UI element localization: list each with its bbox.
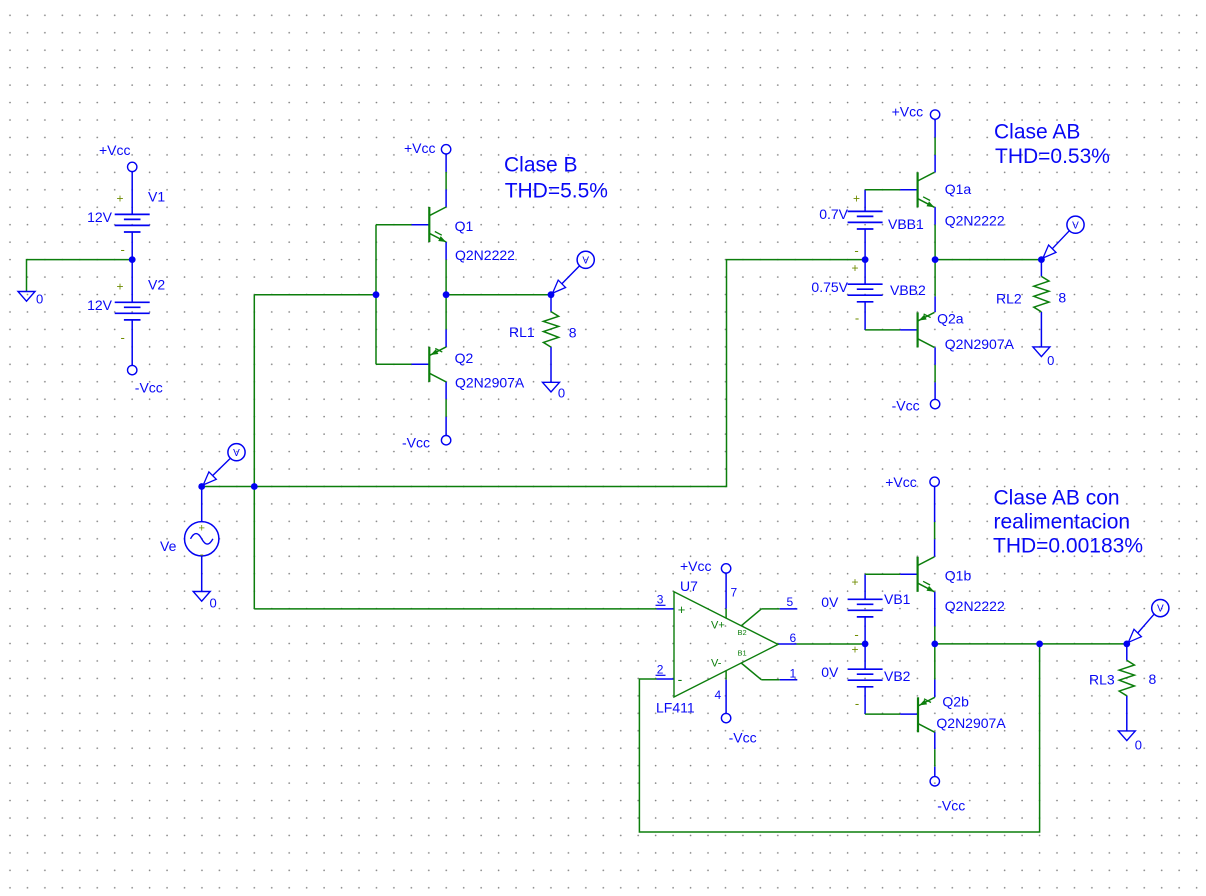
transistor Q1a <box>918 172 935 207</box>
svg-text:3: 3 <box>657 593 664 607</box>
value 0.75V (VBB2) <box>811 279 848 295</box>
wire RL2 bottom <box>1040 312 1042 347</box>
ground 0 (RL1) <box>543 382 560 392</box>
value Q2N2222 (Q1a) <box>945 213 1005 229</box>
battery V1 <box>115 214 150 232</box>
svg-text:THD=0.53%: THD=0.53% <box>995 145 1110 168</box>
wire input branch vertical <box>253 295 255 609</box>
plus mark VBB1 <box>853 192 860 206</box>
svg-text:V: V <box>233 448 240 459</box>
label -Vcc (supply) <box>135 380 163 396</box>
port +Vcc (U7) <box>721 564 730 573</box>
transistor Q2 <box>429 347 446 382</box>
svg-text:+: + <box>678 602 686 617</box>
port +Vcc (supply) <box>128 162 137 171</box>
svg-text:LF411: LF411 <box>656 700 695 716</box>
label +Vcc (U7) <box>680 558 712 574</box>
svg-text:-: - <box>854 243 858 258</box>
ground 0 (RL3) <box>1118 731 1135 741</box>
wire Clase AB node to RL2 <box>935 259 1041 261</box>
battery VB2 <box>848 669 883 687</box>
source Ve <box>185 522 219 561</box>
wire main input net Ve to Clase AB <box>202 260 865 487</box>
wire input to Clase B bases <box>254 294 376 296</box>
svg-text:12V: 12V <box>87 209 113 225</box>
svg-text:-: - <box>855 311 859 326</box>
wire Clase AB +Vcc drop <box>934 119 936 172</box>
probe V (realim. output) <box>1128 600 1169 643</box>
port -Vcc (supply) <box>128 365 137 374</box>
pin 2 (U7) <box>656 663 666 677</box>
ground 0 (power supply) <box>18 292 35 302</box>
label RL2 <box>996 291 1022 307</box>
svg-text:THD=5.5%: THD=5.5% <box>505 179 608 202</box>
label 0 (power ground) <box>36 292 43 307</box>
wire RL1 top <box>550 295 552 312</box>
port -Vcc (realim.) <box>930 777 939 786</box>
svg-text:4: 4 <box>715 688 722 702</box>
svg-text:realimentacion: realimentacion <box>994 511 1131 534</box>
svg-text:+: + <box>198 523 204 535</box>
svg-text:V: V <box>1157 604 1164 615</box>
label Q2 <box>455 350 474 366</box>
battery VBB1 <box>848 211 883 229</box>
plus mark VBB2 <box>851 261 858 275</box>
label V1 <box>148 189 165 205</box>
svg-text:Q2N2222: Q2N2222 <box>455 247 515 263</box>
svg-text:-Vcc: -Vcc <box>135 380 163 396</box>
label Q2a <box>937 310 964 326</box>
wire Ve top <box>201 487 203 522</box>
label V+ (U7) <box>711 620 725 632</box>
svg-text:RL1: RL1 <box>509 324 535 340</box>
junction node RL3 <box>1123 641 1130 648</box>
svg-text:+: + <box>851 643 858 657</box>
wire Q2 base stub <box>376 363 429 365</box>
svg-text:Ve: Ve <box>160 538 177 554</box>
label B2 (U7) <box>738 628 747 637</box>
svg-text:THD=0.00183%: THD=0.00183% <box>993 535 1143 558</box>
pin 5 (U7) <box>741 595 797 626</box>
svg-text:0: 0 <box>558 386 565 401</box>
svg-text:Q1a: Q1a <box>945 181 972 197</box>
wire V2 bottom <box>131 320 133 366</box>
label U7 <box>680 578 698 594</box>
title Clase AB con realimentacion <box>993 486 1143 557</box>
svg-text:+: + <box>116 280 123 294</box>
pin 1 (U7) <box>741 663 797 681</box>
junction junction Ve node <box>198 483 205 490</box>
transistor Q1 <box>429 207 446 242</box>
wire output node to RL3 <box>935 643 1127 645</box>
svg-text:5: 5 <box>787 595 794 609</box>
svg-text:0V: 0V <box>821 594 839 610</box>
svg-text:12V: 12V <box>87 297 113 313</box>
battery V2 <box>115 302 150 320</box>
minus mark V2 <box>121 330 125 345</box>
minus mark VB1 <box>854 627 858 642</box>
svg-text:0: 0 <box>1047 353 1054 368</box>
port +Vcc (realim.) <box>930 477 939 486</box>
ground 0 (RL2) <box>1033 347 1050 357</box>
wire Ve bottom <box>201 556 203 592</box>
svg-text:-: - <box>121 330 125 345</box>
battery VB1 <box>848 599 883 617</box>
wire Clase B base bus <box>375 225 377 365</box>
plus mark V2 <box>116 280 123 294</box>
svg-text:Q2b: Q2b <box>942 693 969 709</box>
resistor RL1 <box>543 312 558 348</box>
pin 6 (U7) <box>790 631 797 645</box>
label VB1 <box>884 591 911 607</box>
op-amp U7 <box>674 592 778 697</box>
svg-text:0: 0 <box>36 292 43 307</box>
svg-text:+Vcc: +Vcc <box>885 474 917 490</box>
svg-text:0: 0 <box>1135 738 1142 753</box>
label -Vcc (Clase AB) <box>892 398 920 414</box>
label 0 (RL3 ground) <box>1135 738 1142 753</box>
pin 4 (U7) <box>715 670 727 713</box>
title Clase B <box>504 154 608 203</box>
svg-text:Q1b: Q1b <box>945 568 972 584</box>
value 0V (VB2) <box>821 664 839 680</box>
junction node RL1 <box>548 291 555 298</box>
wire Clase B +Vcc drop <box>445 154 447 207</box>
wire Q1 base stub <box>376 224 429 226</box>
wire Clase B emitter string <box>445 242 447 347</box>
value LF411 (U7) <box>656 700 695 716</box>
label -Vcc (Clase B) <box>402 435 430 451</box>
svg-text:+: + <box>116 192 123 206</box>
probe V (Clase AB output) <box>1043 216 1084 258</box>
label Q1 <box>455 218 474 234</box>
label B1 (U7) <box>738 649 747 658</box>
value 12V (V2) <box>87 297 113 313</box>
pin 3 (U7) <box>656 593 666 607</box>
port +Vcc (Clase B) <box>441 145 450 154</box>
resistor RL3 <box>1119 660 1134 696</box>
svg-text:+Vcc: +Vcc <box>892 104 924 120</box>
wire junction to VBB2 <box>864 260 866 285</box>
wire power supply midpoint to ground <box>27 260 133 292</box>
port -Vcc (U7) <box>721 713 730 722</box>
value 12V (V1) <box>87 209 113 225</box>
minus mark VBB2 <box>855 311 859 326</box>
wire VBB2 to Q2a base <box>865 302 918 330</box>
junction node Clase B output <box>443 291 450 298</box>
svg-text:8: 8 <box>569 325 577 341</box>
label Ve <box>160 538 177 554</box>
wire op-amp pin3 feed <box>254 608 674 610</box>
value Q2N2907A (Q2a) <box>945 336 1015 352</box>
svg-text:-: - <box>678 671 683 687</box>
wire RL3 bottom <box>1126 696 1128 731</box>
svg-text:8: 8 <box>1149 671 1157 687</box>
svg-text:8: 8 <box>1058 290 1066 306</box>
wire V1 top <box>131 172 133 215</box>
label V- (U7) <box>711 658 722 670</box>
svg-text:Q2N2907A: Q2N2907A <box>945 336 1015 352</box>
svg-text:-: - <box>855 696 859 711</box>
plus mark VB2 <box>851 643 858 657</box>
svg-text:1: 1 <box>790 667 797 681</box>
wire V1 bottom <box>131 232 133 260</box>
label V2 <box>148 277 165 293</box>
label +Vcc (supply) <box>99 142 131 158</box>
svg-text:+: + <box>851 261 858 275</box>
svg-text:B2: B2 <box>738 628 747 637</box>
wire Q2b -Vcc drop <box>934 732 936 777</box>
svg-text:V2: V2 <box>148 277 165 293</box>
minus mark VBB1 <box>854 243 858 258</box>
svg-text:0V: 0V <box>821 664 839 680</box>
svg-text:+Vcc: +Vcc <box>99 142 131 158</box>
junction junction input branch <box>251 483 258 490</box>
svg-text:Q2N2222: Q2N2222 <box>945 598 1005 614</box>
value 0V (VB1) <box>821 594 839 610</box>
title Clase AB <box>994 120 1110 168</box>
wire Q1b +Vcc drop <box>934 487 936 557</box>
label 0 (RL2 ground) <box>1047 353 1054 368</box>
svg-text:Clase AB: Clase AB <box>994 120 1080 143</box>
value 8 (RL2) <box>1058 290 1066 306</box>
svg-text:0: 0 <box>210 596 217 611</box>
label RL3 <box>1089 672 1115 688</box>
svg-text:Q2: Q2 <box>455 350 474 366</box>
label -Vcc (realim.) <box>937 798 965 814</box>
label Q2b <box>942 693 969 709</box>
transistor Q1b <box>918 557 935 592</box>
svg-text:-Vcc: -Vcc <box>892 398 920 414</box>
svg-text:Q2N2907A: Q2N2907A <box>936 715 1006 731</box>
junction node RL2 <box>1038 256 1045 263</box>
svg-text:+: + <box>851 575 858 589</box>
svg-text:Clase B: Clase B <box>504 154 578 177</box>
junction node realim. output <box>931 641 938 648</box>
svg-text:U7: U7 <box>680 578 698 594</box>
svg-text:-: - <box>854 627 858 642</box>
wire VB2 to Q2b base <box>865 687 918 714</box>
junction junction feedback tap <box>1036 641 1043 648</box>
svg-text:-: - <box>200 547 204 561</box>
plus mark V1 <box>116 192 123 206</box>
minus mark VB2 <box>855 696 859 711</box>
junction junction Clase B bases <box>373 291 380 298</box>
port +Vcc (Clase AB) <box>930 110 939 119</box>
junction junction V1-V2 <box>129 256 136 263</box>
svg-text:-: - <box>121 242 125 257</box>
value Q2N2222 (Q1) <box>455 247 515 263</box>
svg-text:-Vcc: -Vcc <box>402 435 430 451</box>
wire VB1 to Q1b base <box>865 574 918 599</box>
wire VBB1 to junction <box>864 229 866 260</box>
wire VB1 to junction <box>864 617 866 644</box>
label +Vcc (Clase AB) <box>892 104 924 120</box>
wire VBB1 to Q1a base <box>865 190 918 212</box>
svg-text:V1: V1 <box>148 189 165 205</box>
svg-text:VB1: VB1 <box>884 591 911 607</box>
label VB2 <box>884 668 911 684</box>
wire RL1 bottom <box>550 347 552 382</box>
plus mark VB1 <box>851 575 858 589</box>
minus mark V1 <box>121 242 125 257</box>
label +Vcc (Clase B) <box>404 140 436 156</box>
label 0 (RL1 ground) <box>558 386 565 401</box>
value Q2N2907A (Q2) <box>455 374 525 390</box>
wire Q1b Q2b emitter string <box>934 592 936 698</box>
svg-text:RL3: RL3 <box>1089 672 1115 688</box>
label +Vcc (realim.) <box>885 474 917 490</box>
wire RL2 top <box>1040 260 1042 277</box>
svg-text:7: 7 <box>731 586 738 600</box>
svg-text:VB2: VB2 <box>884 668 911 684</box>
wire Clase B output node to RL1 <box>446 294 551 296</box>
wire op-amp pin6 output <box>778 643 865 645</box>
label -Vcc (U7) <box>729 729 757 745</box>
wire RL3 top <box>1126 644 1128 660</box>
value 8 (RL3) <box>1149 671 1157 687</box>
port -Vcc (Clase B) <box>441 436 450 445</box>
svg-text:0.7V: 0.7V <box>819 206 848 222</box>
value Q2N2222 (Q1b) <box>945 598 1005 614</box>
probe V (input) <box>203 444 245 485</box>
junction junction VBB <box>862 256 869 263</box>
wire Clase B -Vcc drop <box>445 382 447 436</box>
svg-text:-Vcc: -Vcc <box>729 729 757 745</box>
wire Clase AB -Vcc drop <box>934 347 936 399</box>
value 8 (RL1) <box>569 325 577 341</box>
svg-text:RL2: RL2 <box>996 291 1022 307</box>
svg-text:VBB2: VBB2 <box>890 282 926 298</box>
svg-text:VBB1: VBB1 <box>888 216 924 232</box>
probe V (Clase B output) <box>553 251 595 293</box>
svg-text:V: V <box>1072 220 1079 231</box>
svg-text:Q2N2907A: Q2N2907A <box>455 374 525 390</box>
svg-text:-Vcc: -Vcc <box>937 798 965 814</box>
wire junction to VB2 <box>864 644 866 669</box>
junction junction VB / pin6 <box>862 641 869 648</box>
wire V2 top <box>131 260 133 303</box>
svg-text:0.75V: 0.75V <box>811 279 848 295</box>
port -Vcc (Clase AB) <box>930 399 939 408</box>
svg-text:Q2a: Q2a <box>937 310 964 326</box>
svg-text:Q2N2222: Q2N2222 <box>945 213 1005 229</box>
label 0 (Ve ground) <box>210 596 217 611</box>
label VBB1 <box>888 216 924 232</box>
label VBB2 <box>890 282 926 298</box>
svg-text:+: + <box>853 192 860 206</box>
label RL1 <box>509 324 535 340</box>
svg-text:Q1: Q1 <box>455 218 474 234</box>
svg-text:V-: V- <box>711 658 722 670</box>
svg-text:2: 2 <box>657 663 664 677</box>
value 0.7V (VBB1) <box>819 206 848 222</box>
svg-text:V: V <box>582 255 589 266</box>
pin 7 (U7) <box>726 573 737 619</box>
transistor Q2a <box>918 312 935 347</box>
transistor Q2b <box>918 697 935 732</box>
label Q1a <box>945 181 972 197</box>
svg-text:V+: V+ <box>711 620 725 632</box>
svg-text:Clase AB con: Clase AB con <box>994 486 1120 509</box>
svg-text:+Vcc: +Vcc <box>404 140 436 156</box>
junction node Clase AB output <box>932 256 939 263</box>
label Q1b <box>945 568 972 584</box>
wire Clase AB emitter string <box>934 207 936 312</box>
svg-text:6: 6 <box>790 631 797 645</box>
svg-text:+Vcc: +Vcc <box>680 558 712 574</box>
value Q2N2907A (Q2b) <box>936 715 1006 731</box>
ground 0 (Ve) <box>193 592 210 602</box>
svg-text:B1: B1 <box>738 649 747 658</box>
resistor RL2 <box>1034 276 1049 312</box>
battery VBB2 <box>848 284 883 302</box>
wire feedback net <box>639 644 1039 832</box>
